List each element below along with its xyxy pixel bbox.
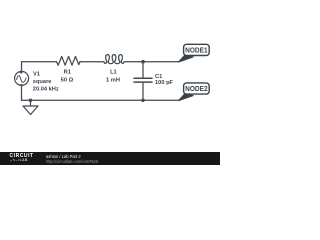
junction ground [29,99,33,103]
junction top capacitor [141,60,145,64]
inductor L1 [103,55,126,64]
svg-text:NODE2: NODE2 [185,84,208,93]
NODE1 flag box [184,44,210,55]
NODE1 flag tail [178,56,193,63]
NODE2 flag box [184,83,210,94]
svg-text:1 mH: 1 mH [106,78,120,84]
wire bottom rail [22,99,179,101]
junction bottom capacitor [141,99,145,103]
logo LAB row [10,158,28,162]
resistor R1 [57,56,81,65]
capacitor C1 bottom lead [142,83,144,101]
logo CIRCUIT [10,153,34,159]
wire top horizontal left segment [22,61,57,63]
svg-text:R1: R1 [64,70,71,76]
footer bar [0,152,220,165]
ground stub [30,100,32,106]
svg-text:square: square [33,79,52,85]
svg-text:20.04 kHz: 20.04 kHz [33,86,59,92]
wire source bottom vertical [21,85,23,100]
NODE2 flag tail [178,94,193,101]
svg-text:L1: L1 [110,70,117,76]
wire top-left vertical [21,62,23,72]
capacitor C1 plates [134,77,152,79]
labels [33,70,174,93]
V1 plus sign [20,71,22,73]
svg-text:V1: V1 [33,72,40,78]
V1 minus sign [20,84,22,86]
voltage source V1 circle [15,71,29,85]
V1 sine wave [17,76,27,83]
wire L1 to node1 end [126,61,179,63]
capacitor C1 top lead [142,62,144,78]
wire between R1 and L1 [80,61,103,63]
footer line 2 [46,159,98,164]
footer line 1 [46,154,81,159]
svg-text:100 pF: 100 pF [155,80,174,86]
svg-text:NODE1: NODE1 [185,45,208,54]
svg-text:50 Ω: 50 Ω [61,78,74,84]
ground triangle [23,106,38,115]
